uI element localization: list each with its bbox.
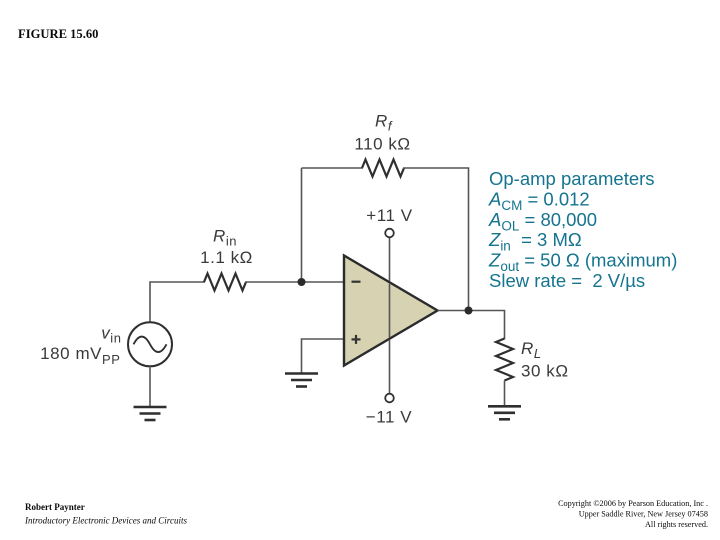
wire: rail inside op-amp body [389, 284, 391, 338]
resistor Rf zigzag [362, 160, 404, 177]
op-amp minus sign [352, 281, 361, 283]
svg-text:All rights reserved.: All rights reserved. [645, 520, 708, 529]
wire: Rin to inverting input [245, 281, 344, 283]
source vin circle [128, 322, 172, 366]
wire: op-amp bottom edge down to −11V [389, 340, 391, 393]
wire: op-amp output to RL branch [438, 311, 505, 340]
svg-text:Slew rate = 2 V/µs: Slew rate = 2 V/µs [489, 270, 645, 291]
wire: +11V rail down to op-amp top edge [389, 238, 391, 282]
wire: ground to non-inverting input [302, 339, 345, 373]
wire: RL to ground [504, 381, 506, 407]
wire: left feedback leg down to node A [301, 168, 303, 282]
svg-text:110 kΩ: 110 kΩ [354, 135, 410, 154]
node B junction dot [465, 307, 473, 315]
resistor RL zigzag [496, 339, 513, 381]
svg-text:Op-amp parameters: Op-amp parameters [489, 168, 655, 189]
ground at non-inverting input [285, 374, 318, 387]
svg-text:FIGURE 15.60: FIGURE 15.60 [18, 27, 98, 41]
svg-text:−11 V: −11 V [366, 408, 412, 427]
svg-text:Copyright ©2006 by Pearson Edu: Copyright ©2006 by Pearson Education, In… [558, 499, 708, 508]
op-amp U1 triangle [344, 256, 438, 366]
svg-text:Robert Paynter: Robert Paynter [25, 502, 85, 512]
svg-text:30 kΩ: 30 kΩ [521, 362, 569, 381]
ground below source [134, 407, 167, 420]
svg-text:+11 V: +11 V [366, 206, 412, 225]
wire: Rf to right corner down to node B [403, 168, 469, 311]
resistor Rin zigzag [204, 274, 246, 291]
svg-text:Introductory Electronic Device: Introductory Electronic Devices and Circ… [24, 516, 187, 526]
terminal −11 V [385, 394, 394, 403]
ground below RL [488, 406, 521, 419]
op-amp plus sign [352, 335, 361, 344]
wire: source top to Rin [150, 282, 205, 323]
wire: source bottom to ground [149, 366, 151, 407]
wire: feedback top-left segment (node A up to Rf) [302, 167, 364, 169]
node A junction dot [298, 278, 306, 286]
svg-text:1.1 kΩ: 1.1 kΩ [200, 248, 253, 267]
terminal +11 V [385, 229, 394, 238]
sine wave inside source [134, 337, 167, 353]
svg-text:Upper Saddle River, New Jersey: Upper Saddle River, New Jersey 07458 [579, 510, 708, 519]
